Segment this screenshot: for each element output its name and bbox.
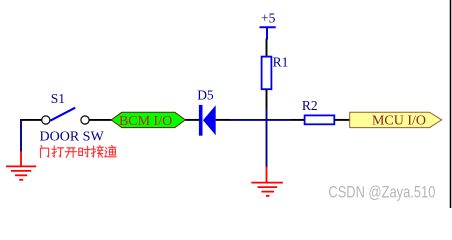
打 xyxy=(52,146,64,157)
svg-text:R1: R1 xyxy=(273,55,289,70)
开 xyxy=(65,148,76,157)
通 xyxy=(105,145,116,156)
wire xyxy=(20,120,22,152)
svg-text:D5: D5 xyxy=(197,88,214,103)
ground xyxy=(251,167,283,196)
resistor R2 xyxy=(291,115,350,124)
power +5 xyxy=(260,11,276,40)
wire xyxy=(266,108,268,168)
svg-text:MCU I/O: MCU I/O xyxy=(372,113,426,128)
switch S1 xyxy=(20,108,112,124)
port BCM I/O xyxy=(111,112,185,129)
svg-text:+5: +5 xyxy=(261,11,276,26)
svg-text:R2: R2 xyxy=(302,98,318,113)
label 门打开时接通 (red note) xyxy=(41,145,117,157)
svg-text:CSDN @Zaya.510: CSDN @Zaya.510 xyxy=(328,183,435,201)
接 xyxy=(91,145,103,157)
diode D5 xyxy=(201,105,230,136)
svg-text:S1: S1 xyxy=(51,91,65,106)
门 xyxy=(41,145,49,157)
screenshot right edge xyxy=(450,0,452,208)
svg-text:DOOR SW: DOOR SW xyxy=(40,129,105,144)
resistor R1 xyxy=(262,39,272,109)
svg-text:BCM I/O: BCM I/O xyxy=(119,114,172,129)
wire xyxy=(230,119,291,121)
port MCU I/O xyxy=(350,112,442,128)
ground xyxy=(6,151,36,180)
wire xyxy=(185,119,199,121)
时 xyxy=(79,146,90,157)
